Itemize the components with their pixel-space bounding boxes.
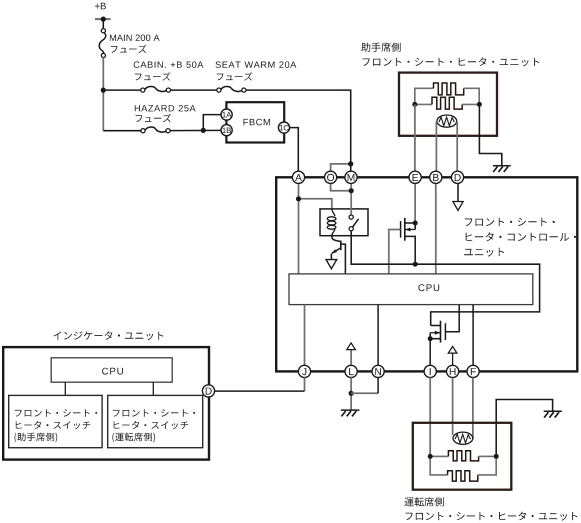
- wire F internal: [472, 305, 474, 366]
- wire J internal: [304, 305, 306, 366]
- terminal H: [447, 365, 459, 377]
- fuse CABIN. +B 50A: [141, 88, 145, 92]
- wire heater1b entry: [415, 103, 432, 105]
- wire Q3 gate to CPU: [445, 305, 459, 332]
- junction L-N link: [349, 391, 354, 396]
- node heater2 right: [494, 454, 499, 459]
- mosfet Q3 channel bar: [440, 321, 442, 343]
- terminal A: [292, 171, 304, 183]
- wire heater2a entry: [433, 455, 449, 457]
- heater element 1b: [432, 97, 462, 109]
- terminal L: [345, 365, 357, 377]
- wire CABIN fuse to SEAT WARM fuse: [171, 89, 217, 91]
- junction M feed upper: [348, 161, 353, 166]
- wire D leg to thermistor: [456, 122, 458, 172]
- terminal B: [430, 171, 442, 183]
- label indicator unit (jp): [53, 331, 163, 340]
- ground arrow D: [453, 202, 463, 211]
- wire heater1 left leg: [415, 88, 434, 104]
- label CPU indicator: [102, 368, 123, 375]
- mosfet Q3 body: [429, 333, 431, 339]
- label sw2 line2 (jp): [114, 421, 189, 429]
- wire Q2 gate to CPU: [389, 230, 401, 274]
- mosfet Q2 drain stub: [405, 222, 415, 224]
- mosfet Q2 body: [414, 223, 416, 230]
- wire B internal: [435, 183, 437, 274]
- ground passenger heater: [493, 165, 511, 167]
- front seat heater control unit box: [276, 177, 577, 371]
- wire relay switch to mosfet drains: [351, 231, 539, 326]
- wire I to driver heater: [429, 377, 431, 456]
- junction Q2 drain / E: [413, 221, 418, 226]
- wire MAIN fuse to junction and down to HAZARD corner: [102, 58, 104, 131]
- wire L to arrow: [350, 349, 352, 365]
- label CABIN fuse (jp): [135, 72, 171, 80]
- wire A to relay coil: [299, 183, 332, 274]
- wire +B terminal bar: [95, 18, 111, 20]
- label control unit line2 (jp): [466, 232, 576, 241]
- ground driver heater: [544, 410, 562, 412]
- label CPU control unit: [418, 284, 439, 291]
- terminal N: [372, 365, 384, 377]
- switch box passenger: [9, 395, 102, 447]
- arrow L (up): [347, 343, 356, 350]
- label SEAT WARM 20A: [216, 61, 297, 68]
- label FBCM: [244, 119, 270, 126]
- wire heater2a exit: [479, 455, 494, 457]
- label HAZARD fuse (jp): [136, 114, 172, 122]
- wire D to ground arrow: [457, 183, 459, 201]
- mosfet Q2 channel bar: [404, 218, 406, 241]
- thermistor passenger: [437, 115, 457, 127]
- wire E internal: [414, 183, 416, 223]
- wire heater2b left leg: [430, 456, 447, 475]
- arrow H (up): [448, 346, 457, 353]
- wire J below box: [304, 377, 306, 391]
- terminal 1B: [221, 125, 232, 136]
- junction M lower: [349, 188, 354, 193]
- indicator unit box: [3, 347, 209, 460]
- switch box driver: [108, 395, 203, 447]
- wire H to driver thermistor: [452, 377, 454, 435]
- terminal 1C: [278, 122, 289, 133]
- wire J to indicator D: [215, 390, 305, 392]
- wire E leg: [414, 104, 416, 171]
- label control unit line3 (jp): [464, 248, 504, 257]
- transistor Q1 base bar: [340, 241, 342, 251]
- FBCM module box: [226, 102, 284, 142]
- wire H to arrow: [452, 353, 454, 366]
- ground arrow Q1 emitter: [326, 260, 337, 269]
- node heater1 right: [477, 102, 482, 107]
- mosfet Q2 source stub: [405, 236, 415, 264]
- junction A line: [296, 196, 301, 201]
- node heater2 left: [428, 454, 433, 459]
- wire branch to 1A: [203, 115, 221, 131]
- mosfet Q3 drain stub: [431, 325, 441, 327]
- mosfet Q3 source stub: [430, 338, 440, 340]
- wire indicator CPU to switch1: [64, 382, 66, 395]
- junction Q2 source / power wire: [413, 262, 418, 267]
- label control unit line1 (jp): [465, 218, 555, 226]
- label HAZARD 25A: [135, 105, 196, 112]
- label sw2 line1 (jp): [113, 409, 195, 417]
- junction HAZARD to FBCM: [201, 128, 206, 133]
- junction fuse bus: [101, 88, 106, 93]
- wire heater2b exit leg: [478, 456, 496, 475]
- junction +B: [101, 17, 106, 22]
- label sw2 line3 (jp): [112, 433, 155, 443]
- wire SEAT WARM fuse to M terminal drop: [246, 90, 351, 171]
- terminal D indicator: [202, 385, 214, 397]
- wire 1C to terminal A: [290, 128, 299, 172]
- terminal J: [298, 365, 310, 377]
- fuse MAIN 200 A (vertical): [101, 29, 105, 33]
- heater element 2b: [448, 471, 478, 481]
- wire heater1b exit: [462, 103, 479, 105]
- CPU box indicator: [51, 358, 172, 382]
- transistor Q1 emitter: [332, 248, 341, 253]
- node +B battery feed label: [95, 3, 106, 10]
- wire F to driver thermistor: [472, 377, 474, 439]
- wire I internal: [429, 339, 431, 366]
- wire indicator CPU to switch2: [152, 382, 154, 395]
- mosfet Q2 gate bar: [400, 221, 402, 238]
- terminal O: [325, 171, 337, 183]
- relay coil: [332, 209, 335, 216]
- label front seat heater unit top (jp): [363, 57, 540, 66]
- thermistor driver: [453, 432, 473, 444]
- heater element 2a: [448, 451, 478, 461]
- fuse HAZARD 25A: [141, 129, 145, 133]
- label MAIN fuse (jp): [111, 45, 147, 53]
- label front seat heater unit bottom (jp): [406, 512, 578, 521]
- wire N link below box: [351, 392, 378, 394]
- driver heater unit box: [413, 423, 512, 490]
- terminal I: [424, 365, 436, 377]
- relay switch contacts: [349, 215, 353, 219]
- label sw1 line1 (jp): [15, 409, 97, 417]
- label driver side (jp): [404, 497, 443, 506]
- terminal E: [409, 171, 421, 183]
- wire +B to MAIN fuse: [102, 19, 104, 29]
- wire heater1a exit leg: [464, 88, 480, 104]
- label sw1 line2 (jp): [16, 421, 91, 429]
- ground L: [341, 409, 360, 411]
- wire N internal: [377, 305, 379, 366]
- passenger heater unit box: [399, 73, 497, 136]
- mosfet Q3 gate bar: [444, 323, 446, 340]
- wire O bracket lower: [331, 183, 352, 190]
- wire B leg to thermistor: [435, 122, 437, 172]
- relay K1 box: [320, 209, 368, 236]
- wire O bracket upper: [331, 164, 351, 171]
- wire heater2 to ground: [496, 400, 552, 457]
- wire L below box to ground: [350, 377, 352, 410]
- wire heater1 to ground: [479, 104, 501, 165]
- wire Q1 base to CPU: [341, 244, 346, 274]
- label passenger side (jp): [361, 43, 400, 52]
- terminal F: [467, 365, 479, 377]
- terminal M: [345, 171, 357, 183]
- wire M to relay switch: [350, 183, 352, 215]
- transistor Q1 collector from coil: [332, 236, 341, 242]
- heater element 1a: [434, 83, 464, 95]
- terminal D: [451, 171, 463, 183]
- node heater1 left: [412, 102, 417, 107]
- label CABIN. +B 50A: [134, 61, 204, 68]
- label sw1 line3 (jp): [15, 433, 58, 443]
- terminal 1A: [221, 109, 232, 120]
- label SEAT WARM fuse (jp): [217, 72, 253, 80]
- wire HAZARD fuse to 1B: [170, 129, 221, 131]
- wire HAZARD branch horizontal: [103, 130, 141, 132]
- label MAIN 200 A: [110, 35, 160, 42]
- fuse SEAT WARM 20A: [217, 88, 221, 92]
- CPU box control unit: [289, 274, 533, 305]
- junction Q3 source / I line: [428, 336, 433, 341]
- wire fuse bus to CABIN fuse: [103, 89, 140, 91]
